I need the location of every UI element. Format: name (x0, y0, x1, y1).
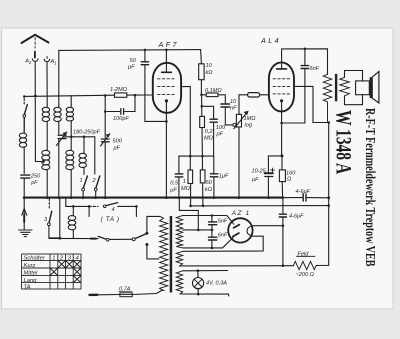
svg-text:4-6μF: 4-6μF (296, 189, 311, 195)
svg-text:4: 4 (76, 256, 79, 262)
capacitor 250pF (21, 175, 30, 178)
switch 1 (83, 176, 87, 188)
svg-text:AF7: AF7 (158, 40, 179, 49)
svg-text:Schalter: Schalter (24, 256, 46, 262)
mains plug (90, 294, 98, 297)
potentiometer 1MΩ log (233, 123, 236, 126)
svg-text:50: 50 (206, 180, 213, 186)
rectifier AZ1 (228, 218, 252, 242)
svg-text:pF: pF (113, 146, 121, 152)
wire bus down to switch row (59, 198, 61, 239)
svg-text:μF: μF (251, 177, 259, 183)
svg-text:250: 250 (30, 174, 41, 180)
TA terminal brackets (89, 206, 136, 216)
wire bus to TA line (66, 198, 74, 207)
switch 4 (103, 205, 106, 208)
coil H (83, 137, 85, 154)
capacitor 10nF (221, 104, 230, 107)
wire screen row y=156.1 (179, 155, 214, 157)
svg-text:( TA ): ( TA ) (101, 216, 120, 223)
wire AL4 cathode node (281, 154, 284, 157)
wire trap tee (23, 96, 25, 97)
svg-text:50: 50 (130, 58, 137, 64)
svg-text:nF: nF (230, 106, 237, 112)
svg-text:4-6μF: 4-6μF (289, 214, 304, 220)
svg-text:log: log (245, 123, 253, 129)
svg-text:R-F-T Fernmeldewerk Treptow VE: R-F-T Fernmeldewerk Treptow VEB (363, 108, 379, 266)
tube AF7 (153, 63, 181, 113)
terminal A2 (34, 52, 36, 58)
B+ rail right (328, 123, 330, 266)
wire anode/reaction top line y=50 (59, 49, 201, 52)
svg-text:W 1348 A: W 1348 A (331, 110, 355, 174)
svg-text:4V, 0,3A: 4V, 0,3A (206, 281, 227, 287)
resistor 1MΩ (189, 156, 191, 170)
coil F (with tap) (42, 150, 50, 155)
capacitor 5nF psu (211, 216, 213, 237)
wire bias line y=205.8 (191, 205, 329, 207)
svg-text:4: 4 (112, 207, 115, 213)
capacitor 100pF grid (parallel loop) (105, 95, 135, 111)
wire AZ1 filament return loop (183, 236, 263, 251)
capacitor 10-25uF electrolytic (265, 172, 273, 174)
wire HT center tap (183, 229, 213, 231)
wire grid line y=95.4 (24, 95, 114, 96)
svg-text:pF: pF (127, 65, 135, 71)
svg-text:0,2: 0,2 (205, 129, 214, 135)
svg-text:AL4: AL4 (260, 36, 281, 45)
svg-text:500: 500 (113, 139, 123, 145)
svg-text:μF: μF (169, 188, 177, 194)
svg-text:180-250pF: 180-250pF (73, 129, 101, 135)
table X marks (58, 260, 81, 268)
wire heater bottom (180, 294, 229, 296)
output transformer secondary (340, 77, 350, 96)
transformer core (170, 216, 173, 293)
svg-text:1MΩ: 1MΩ (244, 116, 257, 122)
svg-text:1μF: 1μF (219, 174, 229, 180)
svg-text:Kurz: Kurz (24, 263, 36, 269)
switch 3 (48, 199, 50, 210)
svg-text:0,1MΩ: 0,1MΩ (205, 88, 222, 94)
wire line y=136.8 coil tops (63, 137, 95, 174)
svg-text:10: 10 (206, 63, 213, 69)
transformer winding A (rectifier filament) (176, 251, 182, 266)
wire heater top (183, 270, 228, 272)
wire AL4 anode top line (282, 49, 328, 75)
ground symbol (23, 199, 25, 230)
resistor 0.2MΩ (201, 95, 203, 117)
wire reaction line corner to coil B (58, 50, 60, 104)
terminal A1 (46, 56, 48, 58)
switch trap (23, 99, 25, 105)
fuse 0.7A (120, 293, 132, 297)
coil G (70, 137, 72, 151)
capacitor 50pF (145, 50, 167, 122)
mains switch (132, 238, 135, 241)
svg-text:pF: pF (30, 180, 38, 186)
svg-text:TA: TA (24, 285, 31, 291)
svg-text:MΩ: MΩ (181, 186, 191, 192)
coil A (46, 105, 48, 108)
resistor 10kΩ (200, 50, 203, 95)
svg-text:AZ 1: AZ 1 (231, 210, 251, 217)
capacitor 100pF anode (202, 106, 214, 118)
svg-text:~200 Ω: ~200 Ω (296, 272, 315, 278)
tube AL4 (269, 62, 294, 111)
svg-text:pF: pF (216, 132, 224, 138)
wire right bus + series capacitor 4-6uF (283, 197, 329, 199)
output transformer primary (323, 74, 331, 122)
svg-text:0,5: 0,5 (170, 181, 179, 187)
svg-text:Ω: Ω (287, 177, 292, 183)
svg-text:5nF: 5nF (218, 219, 228, 225)
coil trap (23, 117, 25, 133)
wire AL4 screen to B+ (294, 86, 329, 122)
wire switch row y=238.6 (49, 237, 98, 239)
tuning capacitor 180-250pF (58, 135, 66, 138)
resistor 50kΩ (201, 156, 204, 206)
svg-text:1: 1 (52, 256, 55, 262)
speaker (356, 81, 370, 95)
wire TA line y=206.4 (73, 205, 89, 207)
svg-text:1: 1 (183, 179, 186, 185)
svg-text:10-25: 10-25 (252, 169, 267, 175)
coil C (70, 105, 72, 108)
resistor Feld field coil (293, 261, 328, 269)
svg-text:Lang: Lang (24, 278, 38, 284)
svg-text:kΩ: kΩ (205, 187, 213, 193)
trimmer 500pF (104, 112, 106, 198)
svg-text:5nF: 5nF (310, 66, 320, 72)
wire A1 down to coil A (46, 63, 48, 105)
resistor 1-2MΩ (115, 93, 127, 97)
wire A2 down to coil tap (35, 62, 43, 161)
transformer winding B (heaters) (176, 271, 182, 294)
svg-text:1: 1 (54, 61, 56, 66)
capacitor 6nF psu (209, 237, 217, 240)
ground bus (24, 197, 283, 199)
capacitor 1uF (213, 156, 215, 198)
svg-text:100pF: 100pF (113, 116, 129, 122)
wire HT bottom to AZ1 anode (183, 237, 234, 248)
switch 2 (96, 176, 100, 188)
capacitor 4-6uF (raw B+) (282, 198, 284, 266)
coil B (58, 105, 60, 108)
svg-text:Mittel: Mittel (24, 271, 39, 277)
output transformer core (335, 74, 337, 101)
switch row contact (TA/mains) (98, 236, 106, 239)
resistor AL4 grid (239, 94, 269, 96)
svg-text:1-2MΩ: 1-2MΩ (110, 87, 128, 93)
svg-text:6nF: 6nF (218, 233, 228, 239)
wire AZ1 filament out to B+ (253, 225, 283, 227)
svg-text:1: 1 (80, 178, 83, 184)
transformer HT secondary (176, 216, 182, 248)
coil I (TA coupling) (72, 206, 74, 215)
lamp 4V 0.3A (197, 271, 199, 294)
antenna (22, 35, 49, 43)
wire HT top to AZ1 anode (183, 216, 234, 225)
resistor 160Ω (279, 170, 285, 182)
svg-text:MΩ: MΩ (204, 136, 214, 142)
svg-text:10: 10 (230, 99, 237, 105)
transformer primary (160, 216, 168, 290)
resistor 0.1MΩ (201, 95, 225, 103)
svg-text:kΩ: kΩ (206, 70, 214, 76)
svg-text:100: 100 (216, 125, 226, 131)
capacitor 5nF tone (304, 49, 306, 123)
table Schalter (22, 254, 81, 289)
wire PSU ground drop (179, 198, 198, 230)
capacitor 0.5uF (178, 156, 180, 198)
wire winding A bottom to Feld (180, 265, 294, 267)
